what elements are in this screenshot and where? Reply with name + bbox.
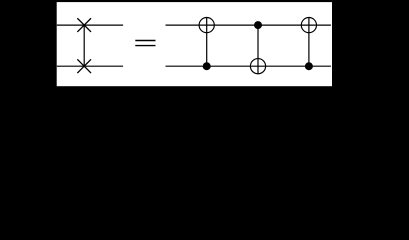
wire q0 left segment: [57, 24, 123, 26]
swap cross top (q0): [77, 18, 91, 32]
CNOT 2 target circle (q1): [250, 59, 265, 74]
white circuit panel: [57, 2, 332, 86]
CNOT 1 control dot (q1): [203, 62, 211, 70]
CNOT 1 vertical connector: [206, 18, 208, 67]
CNOT 3 control dot (q1): [305, 62, 313, 70]
CNOT 2 vertical connector: [257, 25, 259, 74]
wire q0 right segment: [166, 24, 331, 26]
wire q1 right segment: [166, 65, 331, 67]
swap cross bottom (q1): [77, 59, 91, 73]
CNOT 1 target circle (q0): [199, 18, 214, 33]
CNOT 2 control dot (q0): [254, 21, 262, 29]
CNOT 3 target circle (q0): [301, 18, 316, 33]
equals sign: [135, 41, 155, 46]
CNOT 3 vertical connector: [308, 18, 310, 67]
wire q1 left segment: [57, 65, 123, 67]
swap vertical connector: [83, 25, 85, 66]
